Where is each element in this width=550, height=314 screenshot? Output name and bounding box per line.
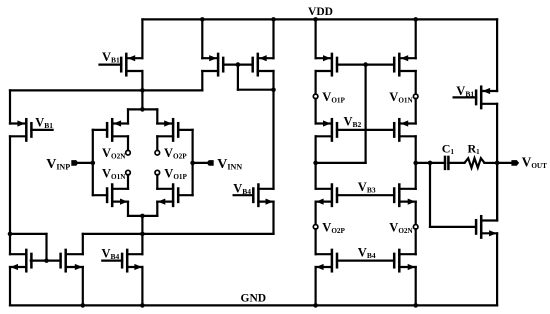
- svg-text:VDD: VDD: [308, 6, 333, 18]
- wire VO1P stub to M12 drain: [156, 175, 158, 189]
- wire feedback down to M22 gate: [429, 163, 431, 227]
- junction core bottom node: [140, 214, 145, 219]
- junction mid-right node: [413, 161, 418, 166]
- junction GND / M19: [313, 303, 318, 308]
- wire M13 drain to VO1P stub: [315, 71, 317, 94]
- wire VO1N to M16 source: [415, 99, 417, 124]
- wire M11 source drop: [127, 202, 129, 216]
- node VO2P terminal (mid): [313, 225, 318, 230]
- transistor M12 (NMOS, input pair right): [157, 185, 192, 206]
- transistor M6 (NMOS, bottom-left mirror): [10, 250, 31, 271]
- wire VB2 gate wire: [337, 129, 394, 131]
- wire M2-M3 gate wire: [223, 63, 252, 65]
- wire M22 gate lead: [430, 226, 475, 228]
- wire M2 source down to tail wire: [201, 71, 203, 90]
- wire M8 drain up to bottom wire: [141, 234, 143, 254]
- transistor M16 (PMOS, VB2 cascode right): [394, 119, 416, 140]
- wire mid-left node to M17 drain: [315, 163, 317, 189]
- wire M7 drain up to bottom wire: [82, 234, 84, 254]
- terminal VINN flag: [207, 160, 214, 166]
- junction VDD rail / M13: [313, 17, 318, 22]
- wire M15 drain to mid-left node: [315, 136, 317, 163]
- wire VDD to M14 source: [415, 19, 417, 58]
- node VO1N terminal (mid): [413, 94, 418, 99]
- wire M1 drain to VDD rail: [141, 19, 143, 58]
- wire VO1N stub to M11 drain: [127, 175, 129, 189]
- junction VDD rail / M2: [200, 17, 205, 22]
- wire VB4 gate wire: [337, 260, 394, 262]
- wire M18 source to VO2N stub: [415, 202, 417, 225]
- junction core top node: [140, 107, 145, 112]
- transistor M5 (NMOS, VB4 bias, first stage): [234, 185, 274, 206]
- wire core bottom node to bottom wire and GND: [141, 216, 143, 234]
- transistor M21 (PMOS, VB1 output): [454, 87, 498, 108]
- wire GND rail: [10, 304, 497, 306]
- transistor M18 (NMOS, VB3 cascode right): [394, 185, 416, 206]
- wire bottom wire right segment: [83, 233, 274, 235]
- junction GND / M7: [81, 303, 86, 308]
- wire output node to VOUT flag: [497, 162, 512, 164]
- wire VINP gate vertical: [92, 130, 94, 195]
- resistor R1: [465, 158, 485, 168]
- wire core top node horizontal: [128, 108, 157, 110]
- wire VO2P to M19 drain: [315, 229, 317, 254]
- wire M17 source to VO2P stub: [315, 202, 317, 225]
- transistor M22 (NMOS, output): [476, 216, 497, 237]
- wire M13-M14 gate wire: [337, 63, 394, 65]
- wire VB3 gate wire: [337, 194, 394, 196]
- wire gate node down: [365, 65, 367, 163]
- svg-text:GND: GND: [241, 292, 267, 304]
- terminal VOUT flag: [511, 160, 519, 166]
- wire M7 source to GND: [82, 267, 84, 305]
- transistor M17 (NMOS, VB3 cascode left): [316, 185, 337, 206]
- transistor M1 (PMOS, VB1 bias, top-left): [100, 54, 143, 75]
- wire M6 source to GND: [9, 267, 11, 305]
- junction VDD rail / M3: [271, 17, 276, 22]
- wire M4 source down to bottom node: [9, 136, 11, 234]
- transistor M19 (NMOS, VB4 bottom left): [316, 250, 337, 271]
- capacitor C1: [445, 157, 448, 169]
- junction trio gate node: [44, 258, 49, 263]
- wire mid-right node to compensation: [416, 162, 445, 164]
- transistor M11 (NMOS, input pair left): [93, 185, 128, 206]
- wire VDD rail: [142, 18, 497, 20]
- junction M13-M14 gate node: [363, 62, 368, 67]
- wire M21 drain down to output node: [496, 104, 498, 220]
- node VO2N terminal (core): [126, 150, 131, 155]
- wire M2 drain to VDD rail: [201, 19, 203, 58]
- wire VINN lead: [193, 162, 208, 164]
- transistor M20 (NMOS, VB4 bottom right): [394, 250, 416, 271]
- wire M3 source to VDD rail: [272, 19, 274, 58]
- wire C1 to R1: [448, 162, 464, 164]
- wire gate node down: [237, 65, 239, 90]
- junction VINP node: [91, 161, 96, 166]
- wire PMOS tail node horizontal: [10, 89, 202, 91]
- transistor M4 (PMOS, VB1 bias, far left): [10, 119, 53, 140]
- node VO1P terminal (core): [155, 170, 160, 175]
- wire M10 drain to VO2P stub: [156, 136, 158, 150]
- junction output node: [495, 161, 500, 166]
- transistor M7 (NMOS, bottom-left mirror diode): [61, 250, 83, 271]
- wire M1 source down to tail node: [141, 71, 143, 90]
- wire bottom wire left segment: [10, 233, 47, 235]
- transistor M8 (NMOS, VB4 bias, bottom-left): [102, 250, 142, 271]
- transistor M13 (PMOS, second stage top left): [316, 54, 337, 75]
- transistor M10 (PMOS, input pair right): [157, 119, 192, 140]
- terminal VINP flag: [71, 160, 78, 166]
- wire M5 source down: [272, 202, 274, 234]
- junction left column / bottom wire: [8, 232, 13, 237]
- wire VINN gate vertical: [192, 130, 194, 195]
- wire mid-right node to M18 drain: [415, 163, 417, 189]
- wire core top right drop: [156, 109, 158, 123]
- wire VINP lead: [77, 162, 93, 164]
- junction GND / M8: [140, 303, 145, 308]
- wire output node down to M22 drain: [496, 163, 498, 221]
- wire M14 drain to VO1N stub: [415, 71, 417, 94]
- junction VDD rail / M14: [413, 17, 418, 22]
- transistor M9 (PMOS, input pair left): [93, 119, 128, 140]
- node VO1P terminal (mid): [313, 94, 318, 99]
- node VO2N terminal (mid): [413, 225, 418, 230]
- wire M9 drain to VO2N stub: [127, 136, 129, 150]
- wire gate node to mid-left node: [316, 162, 366, 164]
- transistor M2 (PMOS, mirror pair left): [202, 54, 223, 75]
- wire left column to M6 drain: [9, 234, 11, 254]
- wire gate node to M3 drain: [238, 89, 274, 91]
- transistor M14 (PMOS, second stage top right): [394, 54, 416, 75]
- wire M20 source to GND: [415, 267, 417, 305]
- wire M22 source to GND: [496, 233, 498, 305]
- wire VO2N to M20 drain: [415, 229, 417, 254]
- wire tail wire down to M4 drain: [9, 90, 11, 123]
- wire M16 drain to mid-right node: [415, 136, 417, 163]
- junction VINN node: [190, 161, 195, 166]
- wire VDD to M13 source: [315, 19, 317, 58]
- transistor M3 (PMOS, mirror pair right, diode-connected): [253, 54, 274, 75]
- wire VO1P to M15 source: [315, 99, 317, 124]
- wire R1 to output node: [485, 162, 498, 164]
- node VO2P terminal (core): [155, 150, 160, 155]
- junction tail node / M1: [140, 88, 145, 93]
- junction GND / M20: [413, 303, 418, 308]
- wire core top node riser: [141, 90, 143, 109]
- junction gate node of mirror pair: [236, 62, 241, 67]
- junction M3 drain / gate tie: [271, 87, 276, 92]
- junction feedback tap: [428, 161, 433, 166]
- wire M3 drain down to M5 drain: [272, 71, 274, 189]
- wire left segment down to trio gates: [45, 234, 47, 261]
- transistor M15 (PMOS, VB2 cascode left): [316, 119, 337, 140]
- junction mid-left node: [313, 161, 318, 166]
- wire core bottom node horizontal: [128, 215, 157, 217]
- wire core top left drop: [127, 109, 129, 123]
- wire M8 source to GND: [141, 267, 143, 305]
- wire M6-M7 gate wire: [31, 260, 60, 262]
- wire M12 source drop: [156, 202, 158, 216]
- node VO1N terminal (core): [126, 170, 131, 175]
- wire M19 source to GND: [315, 267, 317, 305]
- wire VDD rail down to M21 source: [496, 19, 498, 91]
- junction bottom wire / core tail: [140, 232, 145, 237]
